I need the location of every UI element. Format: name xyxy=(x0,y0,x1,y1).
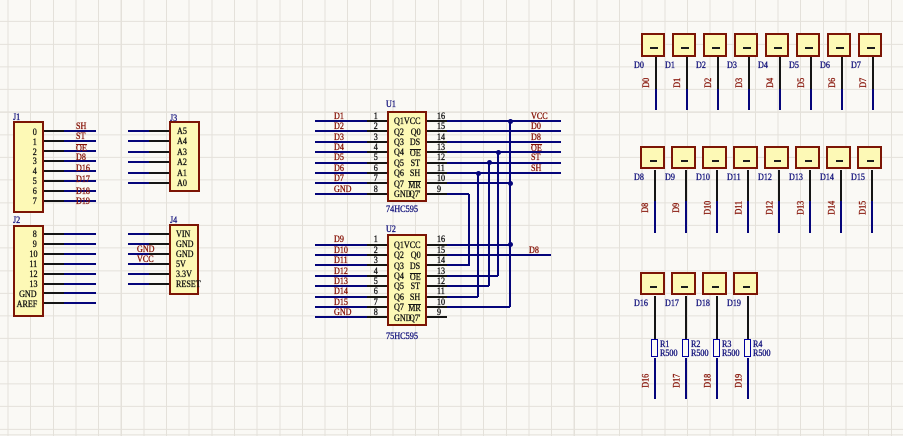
LED D6 body xyxy=(827,33,852,57)
U2 pin number 12 xyxy=(437,278,445,288)
U1 pin number 5 xyxy=(374,154,378,164)
U2 right pin 14 xyxy=(427,264,447,266)
J4 pin name GND xyxy=(176,251,194,261)
LED D19 body xyxy=(733,272,758,296)
J2 pin name 11 xyxy=(29,261,37,271)
U2 pin name Q1 xyxy=(394,242,404,252)
wire vertical OE xyxy=(497,152,499,276)
U2 pin number 1 xyxy=(374,236,378,246)
resistor R4 body xyxy=(744,339,751,358)
designator J4 xyxy=(170,217,177,227)
wire D17 net xyxy=(685,358,687,399)
LED D9 pin xyxy=(685,170,687,201)
net label D16 xyxy=(76,165,90,175)
J3 pin 2 xyxy=(149,140,169,142)
wire J4.RESET xyxy=(128,283,149,285)
LED D10 pin number 1 (rotated) xyxy=(712,160,719,162)
wire D9 xyxy=(685,201,687,233)
wire J2.13 xyxy=(64,283,96,285)
wire U1.Q7' serial out xyxy=(447,193,469,195)
net label D12 xyxy=(334,268,348,278)
U2 left pin 4 xyxy=(367,275,387,277)
J2 pin 2 xyxy=(44,243,64,245)
net label D0 (vertical) xyxy=(647,82,649,84)
designator D19 xyxy=(727,300,741,310)
LED D7 pin xyxy=(872,57,874,89)
net label D1 xyxy=(334,113,344,123)
resistor R3 body xyxy=(713,339,720,358)
wire D8 xyxy=(654,201,656,233)
LED D0 body xyxy=(641,33,666,57)
wire J1.0 xyxy=(64,130,96,132)
U2 pin number 3 xyxy=(374,257,378,267)
U2 left pin 5 xyxy=(367,285,387,287)
J4 pin 1 xyxy=(149,233,169,235)
J1 pin 3 xyxy=(44,150,64,152)
LED D9 pin number 1 (rotated) xyxy=(681,160,688,162)
designator R3 xyxy=(722,341,731,351)
LED D0 pin xyxy=(655,57,657,89)
LED D3 pin number 1 (rotated) xyxy=(743,47,750,49)
designator D3 xyxy=(727,62,737,72)
U2 right pin 13 xyxy=(427,275,447,277)
designator R2 xyxy=(691,341,700,351)
net label D10 (vertical) xyxy=(708,207,710,209)
wire J1.2 xyxy=(64,150,96,152)
connector J3 body xyxy=(169,121,200,192)
LED D1 pin xyxy=(686,57,688,89)
net label D14 (vertical) xyxy=(832,207,834,209)
designator D11 xyxy=(727,174,741,184)
U2 left pin 8 xyxy=(367,316,387,318)
J4 pin 3 xyxy=(149,253,169,255)
wire U2.OE xyxy=(447,275,498,277)
U2 pin number 4 xyxy=(374,268,378,278)
J2 pin name 13 xyxy=(29,281,37,291)
net label GND xyxy=(137,246,155,256)
J4 pin name 3.3V xyxy=(176,271,192,281)
LED D18 pin to R3 xyxy=(716,296,718,339)
U2 pin name GND xyxy=(394,315,412,325)
LED D16 pin number 1 (rotated) xyxy=(650,286,657,288)
U1 right pin 12 xyxy=(427,162,447,164)
U1 pin number 3 xyxy=(374,134,378,144)
U1 right pin 11 xyxy=(427,172,447,174)
designator D4 xyxy=(758,62,768,72)
U2 pin name Q3 xyxy=(394,263,404,273)
net label D3 (vertical) xyxy=(740,82,742,84)
designator D18 xyxy=(696,300,710,310)
U2 right pin 9 xyxy=(427,316,447,318)
designator D8 xyxy=(634,174,644,184)
net label D2 xyxy=(334,123,344,133)
wire J3.A2 xyxy=(128,161,149,163)
U1 pin name Q3 xyxy=(394,139,404,149)
J2 pin name 9 xyxy=(33,241,37,251)
LED D18 body xyxy=(702,272,727,296)
net label D4 (vertical) xyxy=(771,82,773,84)
LED D2 pin number 1 (rotated) xyxy=(712,47,719,49)
U2 right pin 12 xyxy=(427,285,447,287)
J4 pin 4 xyxy=(149,263,169,265)
wire vertical SH xyxy=(477,173,479,297)
U1 pin name Q7' xyxy=(409,191,420,201)
junction U1.MR xyxy=(508,181,513,186)
U2 pin number 14 xyxy=(437,257,445,267)
designator D6 xyxy=(820,62,830,72)
LED D12 pin xyxy=(778,170,780,201)
junction U2.VCC xyxy=(508,242,513,247)
J2 pin 7 xyxy=(44,292,64,294)
junction U1.VCC xyxy=(508,119,513,124)
wire U1.D1 xyxy=(315,120,367,122)
LED D19 pin to R4 xyxy=(747,296,749,339)
U2 pin number 10 xyxy=(437,299,445,309)
J2 pin name AREF xyxy=(16,301,37,311)
net label SH xyxy=(76,123,86,133)
shift register U1 body xyxy=(387,111,427,203)
J1 pin name 4 xyxy=(33,168,37,178)
J1 pin 1 xyxy=(44,130,64,132)
J3 pin name A3 xyxy=(177,149,187,159)
wire vertical ST xyxy=(488,163,490,286)
U2 part number 75HC595 xyxy=(386,332,418,342)
net label D10 xyxy=(334,247,348,257)
resistor R1 body xyxy=(651,339,658,358)
U1 pin name Q1 xyxy=(394,118,404,128)
LED D11 pin xyxy=(747,170,749,201)
wire D16 net xyxy=(654,358,656,399)
J1 pin name 0 xyxy=(33,129,37,139)
U1 right pin 10 xyxy=(427,182,447,184)
U1 pin name DS xyxy=(410,139,420,149)
wire U2.VCC to bus xyxy=(447,244,510,246)
U1 right pin 13 xyxy=(427,151,447,153)
wire net SH xyxy=(447,172,561,174)
wire D13 xyxy=(809,201,811,233)
wire J3.A4 xyxy=(128,140,149,142)
U1 pin name Q2 xyxy=(394,129,404,139)
U1 left pin 1 xyxy=(367,120,387,122)
wire D6 xyxy=(841,89,843,110)
J2 pin 6 xyxy=(44,283,64,285)
LED D19 pin number 1 (rotated) xyxy=(743,286,750,288)
U1 pin name OE xyxy=(410,149,421,160)
U2 pin name SH xyxy=(410,294,420,304)
U1 pin number 10 xyxy=(437,175,445,185)
wire J4.GND xyxy=(128,243,149,245)
J2 pin name GND xyxy=(19,291,37,301)
R2 value R500 xyxy=(691,350,709,360)
wire D4 xyxy=(779,89,781,110)
R3 value R500 xyxy=(722,350,740,360)
J4 pin 6 xyxy=(149,283,169,285)
LED D4 pin xyxy=(779,57,781,89)
U2 right pin 15 xyxy=(427,254,447,256)
wire J3.A3 xyxy=(128,151,149,153)
LED D8 body xyxy=(640,146,665,170)
U2 pin name OE xyxy=(410,273,421,284)
designator D7 xyxy=(851,62,861,72)
LED D16 body xyxy=(640,272,665,296)
wire D5 xyxy=(810,89,812,110)
designator U2 xyxy=(386,226,396,236)
LED D1 body xyxy=(672,33,697,57)
wire U2.D9 xyxy=(315,244,367,246)
wire J1.1 xyxy=(64,140,96,142)
wire U1.MR to VCC bus xyxy=(447,182,510,184)
designator D2 xyxy=(696,62,706,72)
wire U2.D14 xyxy=(315,296,367,298)
wire J4.VIN xyxy=(128,233,149,235)
wire U2.D13 xyxy=(315,285,367,287)
J2 pin 1 xyxy=(44,233,64,235)
LED D15 pin xyxy=(871,170,873,201)
wire D15 xyxy=(871,201,873,233)
net label D13 (vertical) xyxy=(801,207,803,209)
designator D1 xyxy=(665,62,675,72)
J3 pin 5 xyxy=(149,172,169,174)
net label SH xyxy=(531,165,541,175)
designator J3 xyxy=(170,115,177,125)
wire J2.GND xyxy=(64,292,96,294)
U1 left pin 4 xyxy=(367,151,387,153)
junction U1.SH xyxy=(476,171,481,176)
U1 pin number 8 xyxy=(374,186,378,196)
wire J1.3 xyxy=(64,160,96,162)
J3 pin 4 xyxy=(149,161,169,163)
junction U1.OE xyxy=(496,150,501,155)
U1 pin number 11 xyxy=(437,165,445,175)
U2 left pin 2 xyxy=(367,254,387,256)
wire J4.5V xyxy=(128,263,149,265)
wire J2.AREF xyxy=(64,302,96,304)
junction U1.ST xyxy=(487,160,492,165)
net label D11 xyxy=(334,257,348,267)
net label D0 xyxy=(531,123,541,133)
U1 pin number 12 xyxy=(437,154,445,164)
J3 pin name A5 xyxy=(177,128,187,138)
U2 pin name VCC xyxy=(404,242,421,252)
U1 pin number 7 xyxy=(374,175,378,185)
J4 pin name GND xyxy=(176,241,194,251)
wire D19 net xyxy=(747,358,749,399)
net label D19 (vertical) xyxy=(739,379,741,381)
wire U2.D12 xyxy=(315,275,367,277)
wire D0 xyxy=(655,89,657,110)
wire net ST xyxy=(447,162,561,164)
J2 pin 5 xyxy=(44,273,64,275)
U1 pin number 4 xyxy=(374,144,378,154)
wire U1.D7 xyxy=(315,182,367,184)
J1 pin name 3 xyxy=(33,158,37,168)
designator U1 xyxy=(386,101,396,111)
wire D10 xyxy=(716,201,718,233)
net label D4 xyxy=(334,144,344,154)
J2 pin 8 xyxy=(44,302,64,304)
LED D3 pin xyxy=(748,57,750,89)
connector J1 body xyxy=(13,121,44,213)
J1 pin 5 xyxy=(44,170,64,172)
LED D17 pin number 1 (rotated) xyxy=(681,286,688,288)
U1 pin name Q5 xyxy=(394,160,404,170)
U2 pin name Q6 xyxy=(394,294,404,304)
net label D11 (vertical) xyxy=(739,207,741,209)
LED D11 pin number 1 (rotated) xyxy=(743,160,750,162)
LED D13 pin number 1 (rotated) xyxy=(805,160,812,162)
net label D15 (vertical) xyxy=(863,207,865,209)
R1 value R500 xyxy=(660,350,678,360)
wire J3.A1 xyxy=(128,172,149,174)
net label GND xyxy=(334,186,352,196)
wire U2.D11 xyxy=(315,264,367,266)
U2 pin name Q4 xyxy=(394,273,404,283)
net label D7 (vertical) xyxy=(864,82,866,84)
U2 pin number 16 xyxy=(437,236,445,246)
wire J4.GND xyxy=(128,253,149,255)
net label D14 xyxy=(334,288,348,298)
U2 left pin 6 xyxy=(367,296,387,298)
net label D6 xyxy=(334,165,344,175)
J4 pin name VIN xyxy=(176,231,190,241)
U2 left pin 7 xyxy=(367,306,387,308)
LED D17 body xyxy=(671,272,696,296)
resistor R2 body xyxy=(682,339,689,358)
designator R4 xyxy=(753,341,762,351)
U1 left pin 8 xyxy=(367,193,387,195)
LED D14 body xyxy=(826,146,851,170)
U1 pin number 13 xyxy=(437,144,445,154)
net label D15 xyxy=(334,299,348,309)
U1 left pin 7 xyxy=(367,182,387,184)
net label D5 xyxy=(334,154,344,164)
wire U1.D6 xyxy=(315,172,367,174)
wire D12 xyxy=(778,201,780,233)
net label VCC xyxy=(137,256,154,266)
U2 pin name Q0 xyxy=(411,252,421,262)
U1 pin name Q0 xyxy=(411,129,421,139)
LED D7 pin number 1 (rotated) xyxy=(867,47,874,49)
U2 pin number 11 xyxy=(437,288,445,298)
U1 pin name MR xyxy=(408,181,421,192)
net label D18 xyxy=(76,188,90,198)
U2 pin number 5 xyxy=(374,278,378,288)
U1 right pin 15 xyxy=(427,130,447,132)
U2 pin name DS xyxy=(410,263,420,273)
net label D3 xyxy=(334,134,344,144)
J1 pin name 7 xyxy=(33,198,37,208)
J4 pin 2 xyxy=(149,243,169,245)
LED D15 pin number 1 (rotated) xyxy=(867,160,874,162)
U2 pin name Q7 xyxy=(394,304,404,314)
R4 value R500 xyxy=(753,350,771,360)
U1 pin name Q4 xyxy=(394,149,404,159)
wire net D8 xyxy=(447,141,561,143)
net label D13 xyxy=(334,278,348,288)
LED D5 body xyxy=(796,33,821,57)
net label D2 (vertical) xyxy=(709,82,711,84)
U2 pin number 2 xyxy=(374,247,378,257)
wire D11 xyxy=(747,201,749,233)
designator D17 xyxy=(665,300,679,310)
LED D1 pin number 1 (rotated) xyxy=(681,47,688,49)
U1 part number 74HC595 xyxy=(386,205,418,215)
LED D0 pin number 1 (rotated) xyxy=(650,47,657,49)
wire U1.GND xyxy=(315,193,367,195)
connector J2 body xyxy=(13,225,44,317)
wire J4.3.3V xyxy=(128,273,149,275)
LED D5 pin xyxy=(810,57,812,89)
LED D12 pin number 1 (rotated) xyxy=(774,160,781,162)
LED D13 pin xyxy=(809,170,811,201)
wire J2.9 xyxy=(64,243,96,245)
J2 pin name 10 xyxy=(29,251,37,261)
designator D15 xyxy=(851,174,865,184)
net label OE xyxy=(76,144,87,155)
wire vertical U1.Q7' to U2.DS xyxy=(468,194,470,266)
designator D10 xyxy=(696,174,710,184)
LED D17 pin to R2 xyxy=(685,296,687,339)
net label D7 xyxy=(334,175,344,185)
net label D18 (vertical) xyxy=(708,379,710,381)
J1 pin 2 xyxy=(44,140,64,142)
wire D2 xyxy=(717,89,719,110)
designator D0 xyxy=(634,62,644,72)
net label ST xyxy=(531,154,540,164)
U1 pin number 1 xyxy=(374,113,378,123)
J1 pin name 1 xyxy=(33,139,37,149)
designator J2 xyxy=(13,217,20,227)
net label D9 xyxy=(334,236,344,246)
wire J3.A5 xyxy=(128,130,149,132)
U2 pin number 9 xyxy=(437,309,441,319)
LED D5 pin number 1 (rotated) xyxy=(805,47,812,49)
U1 pin number 6 xyxy=(374,165,378,175)
LED D14 pin number 1 (rotated) xyxy=(836,160,843,162)
net label VCC xyxy=(531,113,548,123)
wire J1.5 xyxy=(64,180,96,182)
net label D8 xyxy=(76,154,86,164)
J1 pin 7 xyxy=(44,190,64,192)
net label D8 xyxy=(529,247,539,257)
U2 pin name Q5 xyxy=(394,283,404,293)
U2 right pin 10 xyxy=(427,306,447,308)
U1 left pin 5 xyxy=(367,162,387,164)
net label D17 (vertical) xyxy=(677,379,679,381)
LED D6 pin number 1 (rotated) xyxy=(836,47,843,49)
wire U2.SH xyxy=(447,296,478,298)
U2 left pin 3 xyxy=(367,264,387,266)
LED D4 body xyxy=(765,33,790,57)
U2 pin name ST xyxy=(411,283,420,293)
LED D14 pin xyxy=(840,170,842,201)
U2 right pin 11 xyxy=(427,296,447,298)
U1 pin number 2 xyxy=(374,123,378,133)
U1 pin name Q7 xyxy=(394,181,404,191)
LED D8 pin number 1 (rotated) xyxy=(650,160,657,162)
LED D4 pin number 1 (rotated) xyxy=(774,47,781,49)
net label D16 (vertical) xyxy=(646,379,648,381)
LED D11 body xyxy=(733,146,758,170)
net label GND xyxy=(334,309,352,319)
designator D16 xyxy=(634,300,648,310)
U1 pin number 15 xyxy=(437,123,445,133)
wire U2.D10 xyxy=(315,254,367,256)
J3 pin 3 xyxy=(149,151,169,153)
wire net VCC xyxy=(447,120,561,122)
U1 pin name ST xyxy=(411,160,420,170)
net label D1 (vertical) xyxy=(678,82,680,84)
